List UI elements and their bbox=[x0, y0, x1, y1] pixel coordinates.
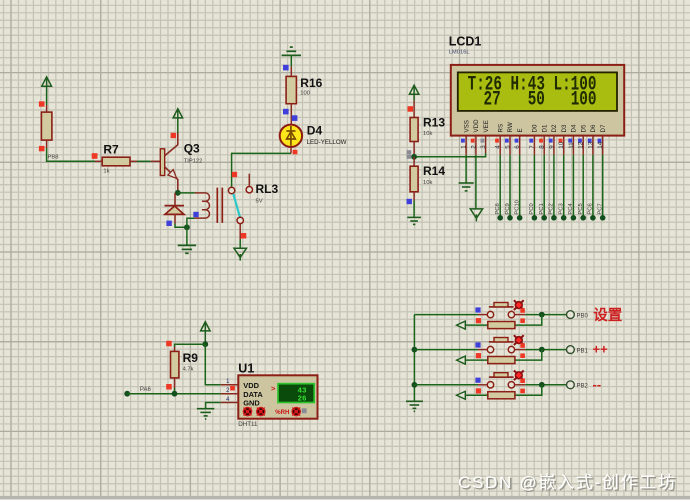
svg-text:D7: D7 bbox=[600, 124, 607, 132]
ground (bus bottom) bbox=[406, 401, 423, 411]
svg-text:7: 7 bbox=[529, 145, 536, 149]
svg-text:3: 3 bbox=[480, 145, 487, 149]
wire: power arrow to collector bbox=[177, 121, 179, 133]
transistor Q3 TIP122 bbox=[151, 133, 203, 193]
svg-text:43: 43 bbox=[297, 388, 307, 396]
ground (below pin 1) bbox=[459, 183, 474, 191]
svg-text:++: ++ bbox=[593, 342, 609, 357]
U1 display bbox=[278, 384, 314, 404]
svg-text:PB0: PB0 bbox=[577, 314, 589, 320]
svg-text:4.7k: 4.7k bbox=[183, 366, 194, 372]
red marker square bbox=[39, 101, 45, 106]
svg-text:VEE: VEE bbox=[483, 120, 490, 132]
svg-text:PC0: PC0 bbox=[529, 203, 535, 214]
svg-text:10k: 10k bbox=[423, 180, 432, 186]
ground (below diode junction) bbox=[178, 227, 196, 253]
wire: junction left to R9 bbox=[175, 344, 206, 351]
terminal PB0 bbox=[567, 311, 589, 320]
svg-text:PC9: PC9 bbox=[505, 203, 511, 214]
svg-text:50: 50 bbox=[528, 88, 545, 111]
svg-text:PB8: PB8 bbox=[48, 155, 59, 161]
svg-text:100: 100 bbox=[571, 88, 597, 111]
svg-text:R9: R9 bbox=[183, 351, 199, 365]
wire: junction to relay coil bbox=[178, 192, 195, 194]
wire: power arrow to resistor top bbox=[46, 94, 48, 113]
wire: ground to R16 bbox=[290, 67, 292, 77]
node: bus junction row2 bbox=[412, 347, 418, 353]
LCD1 pin numbers (rotated) bbox=[461, 141, 605, 148]
LED D4 (yellow) bbox=[280, 125, 302, 147]
svg-text:--: -- bbox=[593, 377, 602, 392]
svg-text:27: 27 bbox=[484, 88, 501, 111]
inverted ground above R16 bbox=[282, 47, 301, 66]
svg-text:5V: 5V bbox=[256, 198, 263, 204]
svg-text:VDD: VDD bbox=[473, 119, 480, 133]
wire: NO contact down to ground arrow bbox=[239, 224, 241, 249]
LCD1 pin marker squares bbox=[461, 139, 601, 143]
svg-text:VDD: VDD bbox=[243, 381, 259, 390]
svg-text:26: 26 bbox=[297, 396, 307, 404]
power terminal (down arrow, below pin 2) bbox=[470, 209, 482, 222]
svg-text:PC2: PC2 bbox=[549, 203, 555, 214]
svg-text:RW: RW bbox=[507, 122, 514, 132]
LCD data/control wires with net labels bbox=[500, 155, 603, 218]
svg-text:1k: 1k bbox=[103, 168, 109, 174]
svg-text:PC4: PC4 bbox=[568, 203, 574, 215]
svg-text:6: 6 bbox=[514, 145, 521, 149]
watermark CSDN bbox=[458, 473, 678, 494]
wire: arrow to R13 bbox=[413, 101, 415, 118]
wire: junction up to coil bottom pin bbox=[187, 218, 195, 227]
svg-text:PC10: PC10 bbox=[515, 200, 521, 215]
svg-text:PC6: PC6 bbox=[588, 203, 594, 214]
relay NO contact bbox=[237, 217, 243, 223]
relay switch blade (cyan) bbox=[233, 194, 240, 217]
U1 pin numbers bbox=[226, 379, 230, 403]
svg-text:D6: D6 bbox=[590, 124, 597, 132]
svg-text:D5: D5 bbox=[580, 124, 587, 132]
relay RL3 coil bbox=[195, 188, 222, 223]
ground (left of U1 GND) bbox=[197, 403, 221, 420]
power terminal above Q3 collector bbox=[173, 109, 183, 121]
wire: R9 bottom to DATA wire bbox=[174, 378, 176, 394]
power terminal above R13 bbox=[409, 85, 419, 100]
resistor (unlabeled, PB8 branch) bbox=[41, 112, 52, 140]
node: VDD/R9 junction bbox=[202, 341, 208, 347]
U1 indicator icons bbox=[243, 408, 306, 417]
grey marker squares bbox=[407, 150, 412, 159]
svg-text:DHT11: DHT11 bbox=[238, 421, 258, 428]
svg-text:D4: D4 bbox=[571, 124, 578, 132]
wire: R14 bottom to ground bbox=[413, 192, 415, 218]
red marker square at D4 bottom bbox=[293, 150, 298, 155]
red marker square bbox=[408, 106, 414, 112]
svg-text:R13: R13 bbox=[423, 115, 445, 129]
power terminal above U1 bbox=[201, 322, 211, 344]
svg-text:PC8: PC8 bbox=[495, 203, 501, 214]
LCD1 pin stubs 1-14 bbox=[466, 136, 603, 155]
svg-text:100: 100 bbox=[300, 90, 310, 96]
svg-text:D3: D3 bbox=[561, 124, 568, 132]
svg-text:14: 14 bbox=[597, 141, 604, 148]
ground arrow terminal (below relay switch) bbox=[234, 248, 247, 260]
wire: resistor bottom to corner, then right to R7 bbox=[47, 140, 95, 161]
node: diode/coil bottom junction bbox=[184, 224, 190, 230]
wire: diode anode down to bottom junction bbox=[175, 214, 187, 227]
blue marker squares bbox=[283, 109, 297, 121]
power terminal (top-left +V arrow) bbox=[42, 77, 52, 94]
node: emitter junction bbox=[175, 190, 181, 196]
LCD1 body bbox=[451, 65, 624, 136]
svg-text:D1: D1 bbox=[541, 124, 548, 132]
svg-text:E: E bbox=[517, 128, 524, 132]
svg-text:R14: R14 bbox=[423, 164, 445, 178]
wire: junction to R14 bbox=[413, 157, 415, 166]
wire: junction down and right to U1 VDD bbox=[205, 344, 221, 385]
terminal PB2 bbox=[567, 381, 589, 390]
red marker square on relay common wire bbox=[232, 172, 237, 177]
relay RL3 switch: common contact bbox=[228, 187, 234, 193]
wire: R7 to Q3 base bbox=[137, 160, 151, 162]
svg-text:PB1: PB1 bbox=[577, 349, 589, 355]
push button row 3 (PB2) bbox=[414, 370, 566, 399]
resistor R16 bbox=[286, 76, 323, 104]
svg-text:R16: R16 bbox=[300, 76, 322, 90]
svg-text:DATA: DATA bbox=[243, 390, 263, 399]
U1 DHT11 body bbox=[238, 375, 317, 418]
svg-text:RL3: RL3 bbox=[256, 182, 279, 196]
resistor R7 bbox=[95, 143, 137, 175]
D4 labels bbox=[307, 124, 347, 146]
node: PA6 wire end bbox=[124, 391, 130, 397]
svg-text:11: 11 bbox=[568, 142, 575, 149]
svg-text:LED-YELLOW: LED-YELLOW bbox=[307, 139, 347, 146]
ground (below R14) bbox=[407, 217, 421, 224]
svg-text:PB2: PB2 bbox=[577, 384, 589, 390]
resistor R13 bbox=[410, 115, 445, 141]
svg-text:VSS: VSS bbox=[463, 120, 470, 132]
flyback diode (unlabeled) bbox=[165, 206, 185, 215]
svg-text:D0: D0 bbox=[532, 124, 539, 132]
resistor R9 bbox=[171, 351, 199, 378]
wire: D4 down-left to relay common bbox=[232, 153, 291, 187]
wire: VEE pin 3 to R13/R14 junction bbox=[414, 153, 486, 157]
LCD1 screen text bbox=[468, 73, 597, 112]
svg-text:5: 5 bbox=[504, 145, 511, 149]
red marker square left of R7 bbox=[92, 153, 98, 159]
svg-text:12: 12 bbox=[578, 141, 585, 148]
wire: R13 bottom to junction bbox=[413, 142, 415, 157]
blue marker square bbox=[283, 65, 289, 71]
svg-text:RS: RS bbox=[497, 124, 504, 133]
push button row 2 (PB1) bbox=[414, 335, 566, 364]
relay NC contact with stub bbox=[246, 174, 252, 193]
net labels PC8-PC10, PC0-PC7 (rotated) bbox=[495, 200, 604, 215]
red marker square on pin 2 bbox=[230, 386, 235, 391]
svg-text:PC5: PC5 bbox=[578, 203, 584, 214]
wire: R16 bottom to D4 bbox=[290, 104, 292, 126]
red marker square bbox=[39, 146, 45, 151]
svg-text:2: 2 bbox=[470, 145, 477, 149]
red marker square at R9 top bbox=[166, 341, 172, 347]
push button row 1 (PB0) bbox=[414, 300, 566, 329]
wire: left bus vertical bbox=[413, 315, 415, 402]
svg-text:LM016L: LM016L bbox=[449, 50, 471, 56]
svg-text:D4: D4 bbox=[307, 124, 323, 138]
U1 pin names bbox=[243, 381, 263, 408]
svg-text:9: 9 bbox=[548, 145, 555, 149]
node: bus junction row3 bbox=[412, 382, 418, 388]
bottom window edge strip bbox=[0, 496, 690, 502]
wire end nodes bbox=[497, 215, 605, 221]
svg-text:GND: GND bbox=[243, 399, 260, 408]
svg-text:TIP122: TIP122 bbox=[184, 159, 203, 165]
resistor R14 bbox=[410, 164, 445, 192]
svg-text:PC7: PC7 bbox=[598, 203, 604, 214]
svg-text:PC1: PC1 bbox=[539, 203, 545, 214]
red marker square bbox=[171, 133, 177, 138]
red marker square at R9 bottom bbox=[166, 384, 172, 390]
svg-text:8: 8 bbox=[539, 145, 546, 149]
svg-text:PA6: PA6 bbox=[140, 387, 152, 393]
svg-text:Q3: Q3 bbox=[184, 142, 200, 156]
wire: junction down to diode bbox=[174, 193, 176, 205]
red marker square bbox=[241, 233, 246, 239]
node: R13/R14 junction bbox=[411, 154, 417, 160]
wire: D4 bottom pin bbox=[290, 147, 292, 154]
svg-text:CSDN @嵌入式-创作工坊: CSDN @嵌入式-创作工坊 bbox=[458, 473, 677, 492]
wire: VSS pin 1 down to ground bbox=[465, 155, 467, 183]
svg-text:>: > bbox=[271, 384, 276, 393]
wire: VDD pin 2 down to power-down arrow bbox=[475, 155, 477, 209]
svg-text:R7: R7 bbox=[103, 143, 119, 157]
svg-text:13: 13 bbox=[587, 141, 594, 148]
U1 pin stubs bbox=[221, 385, 239, 403]
LCD1 reference labels bbox=[449, 34, 482, 55]
blue marker square bbox=[407, 199, 412, 204]
svg-text:10k: 10k bbox=[423, 131, 432, 137]
svg-text:设置: 设置 bbox=[593, 307, 622, 324]
svg-text:%RH: %RH bbox=[275, 410, 289, 416]
wire: PA6 to U1 DATA bbox=[127, 393, 221, 395]
svg-text:U1: U1 bbox=[238, 362, 254, 376]
node: R9/DATA junction bbox=[172, 391, 178, 397]
LCD1 pin name labels (rotated) bbox=[463, 119, 607, 133]
svg-text:D2: D2 bbox=[551, 124, 558, 132]
blue marker squares near diode bbox=[166, 212, 198, 226]
svg-text:1: 1 bbox=[461, 145, 468, 149]
svg-text:LCD1: LCD1 bbox=[449, 34, 482, 48]
svg-text:4: 4 bbox=[495, 145, 502, 149]
LCD1 screen bbox=[458, 72, 617, 111]
relay RL3 labels bbox=[256, 182, 279, 204]
svg-text:PC3: PC3 bbox=[559, 203, 565, 214]
svg-text:10: 10 bbox=[558, 141, 565, 148]
terminal PB1 bbox=[567, 346, 589, 355]
